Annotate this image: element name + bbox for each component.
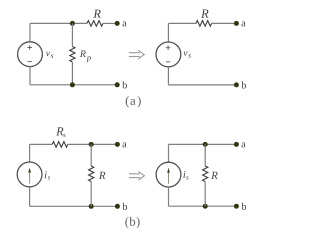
wire: (a)-right top rail from source to R: [168, 22, 196, 24]
label R (circuit a left): [93, 10, 101, 18]
resistor R (series, circuit a left): [87, 21, 103, 27]
wire: R to terminal a (a-right): [212, 22, 235, 24]
label b (a-left): [122, 81, 127, 88]
wire: left branch bottom (is bottom lead, b-left): [29, 187, 31, 207]
wire: left branch bottom (a-right source): [167, 67, 169, 85]
junction: bottom node of R (b-left): [89, 204, 94, 209]
junction: top node of R (b-left): [89, 142, 94, 147]
wire: R to terminal a: [103, 22, 115, 24]
wire: R bottom lead (b-right): [204, 182, 206, 207]
resistor Rs (series, circuit b left): [52, 142, 67, 148]
node a terminal dot (a-right): [234, 21, 239, 26]
node a terminal dot (a-left): [115, 21, 120, 26]
label a (a-left): [123, 22, 127, 27]
junction: top node of Rp: [70, 21, 75, 26]
label R (circuit a right): [201, 10, 209, 18]
wire: Rp bottom lead: [71, 62, 73, 85]
label Rs: [56, 127, 63, 135]
wire: left branch bottom (is bottom lead, b-right): [168, 187, 170, 206]
wire: left branch top (a-right source): [167, 23, 169, 42]
label a (b-right): [242, 143, 246, 148]
junction: bottom node of Rp: [70, 82, 75, 87]
label vs (a-right): [184, 52, 188, 56]
label b (b-right): [241, 203, 246, 210]
wire: Rp top lead: [71, 23, 73, 46]
label a (b-left): [123, 143, 127, 148]
voltage source vs (circuit a left): [18, 42, 43, 67]
junction: bottom node of R (b-right): [203, 204, 208, 209]
wire: (b)-left top rail from Rs to terminal a: [68, 143, 116, 145]
voltage source vs (circuit a right): [156, 42, 181, 67]
resistor R (parallel, circuit b right): [203, 166, 208, 182]
wire: (b)-left bottom rail: [30, 205, 116, 207]
label R (b-left): [99, 172, 106, 179]
wire: left branch bottom (vs bottom lead): [29, 67, 31, 85]
resistor R (series, circuit a right): [196, 21, 212, 27]
wire: left branch top (is top lead, b-right): [168, 144, 170, 162]
current source is (circuit b right): [156, 162, 181, 187]
wire: (b)-right top rail: [169, 143, 235, 145]
label a (a-right): [242, 22, 246, 27]
wire: (b)-left top rail left of Rs: [30, 143, 53, 145]
node b terminal dot (b-left): [115, 204, 120, 209]
wire: (b)-right bottom rail: [169, 205, 235, 207]
label b (a-right): [241, 81, 246, 88]
resistor Rp (parallel, circuit a left): [70, 47, 75, 63]
label R (b-right): [211, 172, 218, 179]
label (b) caption: [125, 217, 128, 229]
label is (b-right): [183, 171, 185, 178]
node b terminal dot (a-right): [234, 82, 239, 87]
label is (b-left): [45, 171, 47, 178]
equivalence arrow (b): [129, 171, 144, 180]
label (a) caption: [126, 96, 129, 108]
node a terminal dot (b-left): [115, 142, 120, 147]
wire: R bottom lead (b-left): [90, 182, 92, 207]
wire: left branch top (vs top lead): [29, 23, 31, 42]
node b terminal dot (a-left): [115, 82, 120, 87]
current source is (circuit b left): [17, 162, 42, 187]
node b terminal dot (b-right): [234, 204, 239, 209]
equivalence arrow (a): [129, 50, 144, 59]
wire: left branch top (is top lead, b-left): [29, 144, 31, 162]
wire: (a)-left bottom rail: [30, 84, 115, 86]
node a terminal dot (b-right): [234, 142, 239, 147]
wire: (a)-left top rail from source to R: [30, 22, 87, 24]
wire: R top lead (b-right): [204, 144, 206, 166]
label b (b-left): [122, 203, 127, 210]
junction: top node of R (b-right): [203, 142, 208, 147]
label Rp: [80, 51, 86, 58]
resistor R (parallel, circuit b left): [89, 166, 94, 182]
wire: (a)-right bottom rail: [168, 84, 234, 86]
label vs (a-left): [46, 52, 50, 56]
wire: R top lead (b-left): [90, 144, 92, 166]
